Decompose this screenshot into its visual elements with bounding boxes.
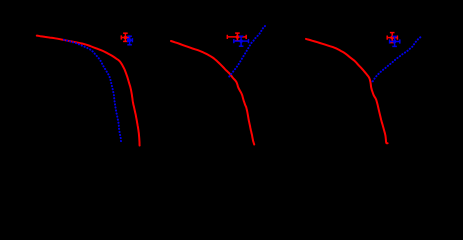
- panel 2: red solid response curve: [171, 41, 254, 145]
- panel 3: blue dotted branch rising from red curve: [373, 37, 421, 81]
- panel 2: blue dotted branch rising from red curve: [229, 26, 265, 76]
- panel 2: red data point with x/y error bars: [227, 33, 246, 41]
- panel 3: blue data point with x/y error bars: [390, 36, 400, 46]
- panel 1: red data point with x/y error bars: [121, 33, 129, 41]
- panel 1: red solid response curve: [37, 36, 140, 146]
- panel 1: blue dotted response curve: [64, 40, 121, 143]
- panel 3: red solid response curve: [306, 39, 388, 143]
- panel 2: blue data point with x/y error bars: [234, 36, 249, 46]
- panel 3: red data point with x/y error bars: [387, 33, 397, 43]
- panel 1: blue data point with x/y error bars: [127, 36, 132, 45]
